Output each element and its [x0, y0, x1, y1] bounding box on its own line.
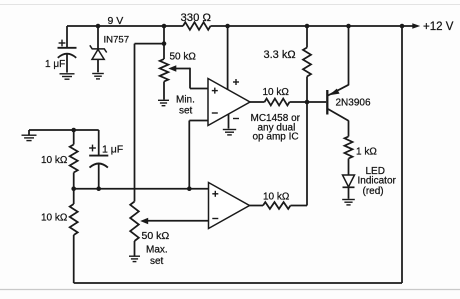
label 50 kOhm max	[142, 230, 170, 242]
label LED Indicator red	[358, 166, 397, 197]
label U1a - input	[212, 112, 218, 114]
label Max. set	[146, 245, 168, 268]
wire 9V rail left segment	[67, 25, 183, 27]
potentiometer 50k max	[130, 202, 139, 242]
svg-text:set: set	[150, 256, 164, 267]
diode zener IN757	[90, 45, 107, 72]
ground below C1	[60, 74, 75, 79]
wire U1a - input from mid-node	[189, 121, 208, 189]
wire zener top lead	[97, 26, 99, 49]
resistor 1k	[345, 137, 353, 159]
node junction cap2-mid	[96, 186, 101, 191]
wiper arrow max pot	[140, 218, 208, 224]
op-amp U1b triangle	[209, 183, 250, 229]
wire lower output to base node	[291, 102, 308, 206]
ground below zener	[92, 74, 104, 79]
wire max pot top lead (long vertical)	[134, 44, 136, 202]
resistor 10k upper output	[265, 99, 290, 106]
op-amp U1a triangle	[208, 79, 250, 126]
wire cap C1 top lead	[66, 26, 68, 48]
ground below min pot	[158, 100, 169, 105]
wire U1a output	[250, 101, 265, 103]
ground below U1a	[223, 130, 236, 135]
svg-text:IN757: IN757	[104, 35, 130, 46]
label 1 uF cap2	[102, 144, 123, 156]
label +12 V	[423, 21, 454, 33]
label U1a V- minus	[233, 118, 239, 120]
svg-text:+12 V: +12 V	[423, 21, 454, 33]
node junction rail-right	[400, 24, 405, 29]
label 10 kOhm upper divider	[41, 155, 68, 166]
label 50 kOhm min	[170, 52, 197, 63]
node junction minpot-bus	[162, 41, 167, 46]
node +12V arrow	[412, 23, 420, 29]
wire 1k to LED	[348, 159, 350, 176]
node junction mid-divider	[71, 186, 76, 191]
label 10 kOhm lower output	[263, 192, 290, 203]
wiper arrow min pot	[168, 65, 190, 71]
label U1b - input	[212, 218, 218, 220]
svg-text:10 kΩ: 10 kΩ	[41, 213, 68, 224]
wire U1a V- lead	[228, 114, 230, 129]
label 2N3906	[336, 98, 371, 109]
ground at divider top	[22, 130, 37, 141]
resistor 3.3k	[303, 26, 311, 102]
wire bottom horizontal	[74, 282, 402, 284]
wire R4 bottom lead	[73, 173, 75, 189]
svg-text:1 μF: 1 μF	[102, 144, 123, 156]
svg-text:2N3906: 2N3906	[336, 98, 371, 109]
svg-text:50 kΩ: 50 kΩ	[142, 230, 170, 242]
svg-text:50 kΩ: 50 kΩ	[170, 52, 197, 63]
resistor 10k lower output	[263, 202, 291, 209]
capacitor C2 1uF	[89, 130, 108, 189]
svg-text:Max.: Max.	[146, 245, 168, 256]
svg-text:10 kΩ: 10 kΩ	[263, 87, 290, 98]
wire min pot top lead	[163, 26, 165, 59]
svg-text:1 kΩ: 1 kΩ	[356, 147, 377, 158]
wire U1b output	[250, 205, 264, 207]
wire +12V rail right segment	[211, 25, 414, 27]
svg-text:op amp IC: op amp IC	[253, 132, 299, 143]
capacitor C1 1uF	[58, 48, 77, 73]
label 3.3 kOhm	[264, 49, 296, 61]
wire U1a V+ lead	[227, 26, 229, 90]
node junction base	[305, 100, 310, 105]
wire min wiper to op-amp + input	[190, 68, 208, 89]
label 1 kOhm	[356, 147, 377, 158]
resistor 10k lower divider	[70, 189, 78, 283]
wire mid-node horizontal	[74, 188, 209, 190]
label Min. set	[176, 95, 195, 117]
label 1 uF	[45, 59, 65, 70]
label 10 kOhm upper output	[263, 87, 290, 98]
diode LED	[343, 175, 355, 199]
svg-text:Indicator: Indicator	[358, 176, 397, 187]
resistor 10k upper divider	[70, 145, 78, 173]
wire to base node	[290, 101, 327, 103]
potentiometer 50k min	[160, 59, 169, 82]
node junction rail-3.3k	[305, 24, 310, 29]
label 330 ohm	[181, 12, 211, 24]
transistor Q1 2N3906	[327, 26, 348, 137]
node junction rail-opamp V+	[225, 24, 230, 29]
label 10 kOhm lower divider	[41, 213, 68, 224]
svg-text:9 V: 9 V	[108, 15, 124, 27]
wire min pot bottom lead	[163, 82, 165, 100]
resistor 330 ohm (series in rail)	[183, 22, 211, 30]
wire divider top horizontal	[29, 129, 99, 131]
decor2	[0, 289, 460, 291]
wire right vertical	[401, 26, 403, 283]
label IN757	[104, 35, 130, 46]
label U1a + input	[212, 88, 218, 94]
svg-text:3.3 kΩ: 3.3 kΩ	[264, 49, 296, 61]
wire max pot bottom lead	[134, 241, 136, 256]
wire R4 top lead	[73, 130, 75, 145]
svg-text:(red): (red)	[363, 186, 384, 197]
decor	[0, 4, 460, 6]
svg-text:1 μF: 1 μF	[45, 59, 65, 70]
label U1b + input	[212, 191, 218, 197]
svg-text:330 Ω: 330 Ω	[181, 12, 211, 24]
svg-text:10 kΩ: 10 kΩ	[41, 155, 68, 166]
svg-text:set: set	[179, 106, 193, 117]
wire pot-top bus horizontal	[135, 43, 165, 45]
svg-text:Min.: Min.	[176, 95, 195, 106]
node junction midnode-U1a	[187, 186, 192, 191]
node junction rail-zener	[96, 24, 101, 29]
ground below LED	[342, 200, 355, 205]
svg-text:10 kΩ: 10 kΩ	[263, 192, 290, 203]
label U1a V+ plus	[233, 79, 239, 85]
node junction rail-emitter	[346, 24, 351, 29]
node junction rail-minpot	[162, 24, 167, 29]
ground below max pot	[129, 256, 140, 261]
label 9 V	[108, 15, 124, 27]
label MC1458	[251, 113, 301, 143]
label C2 polarity +	[89, 145, 96, 152]
label C1 polarity +	[59, 40, 66, 47]
node junction divider-top	[71, 128, 76, 133]
